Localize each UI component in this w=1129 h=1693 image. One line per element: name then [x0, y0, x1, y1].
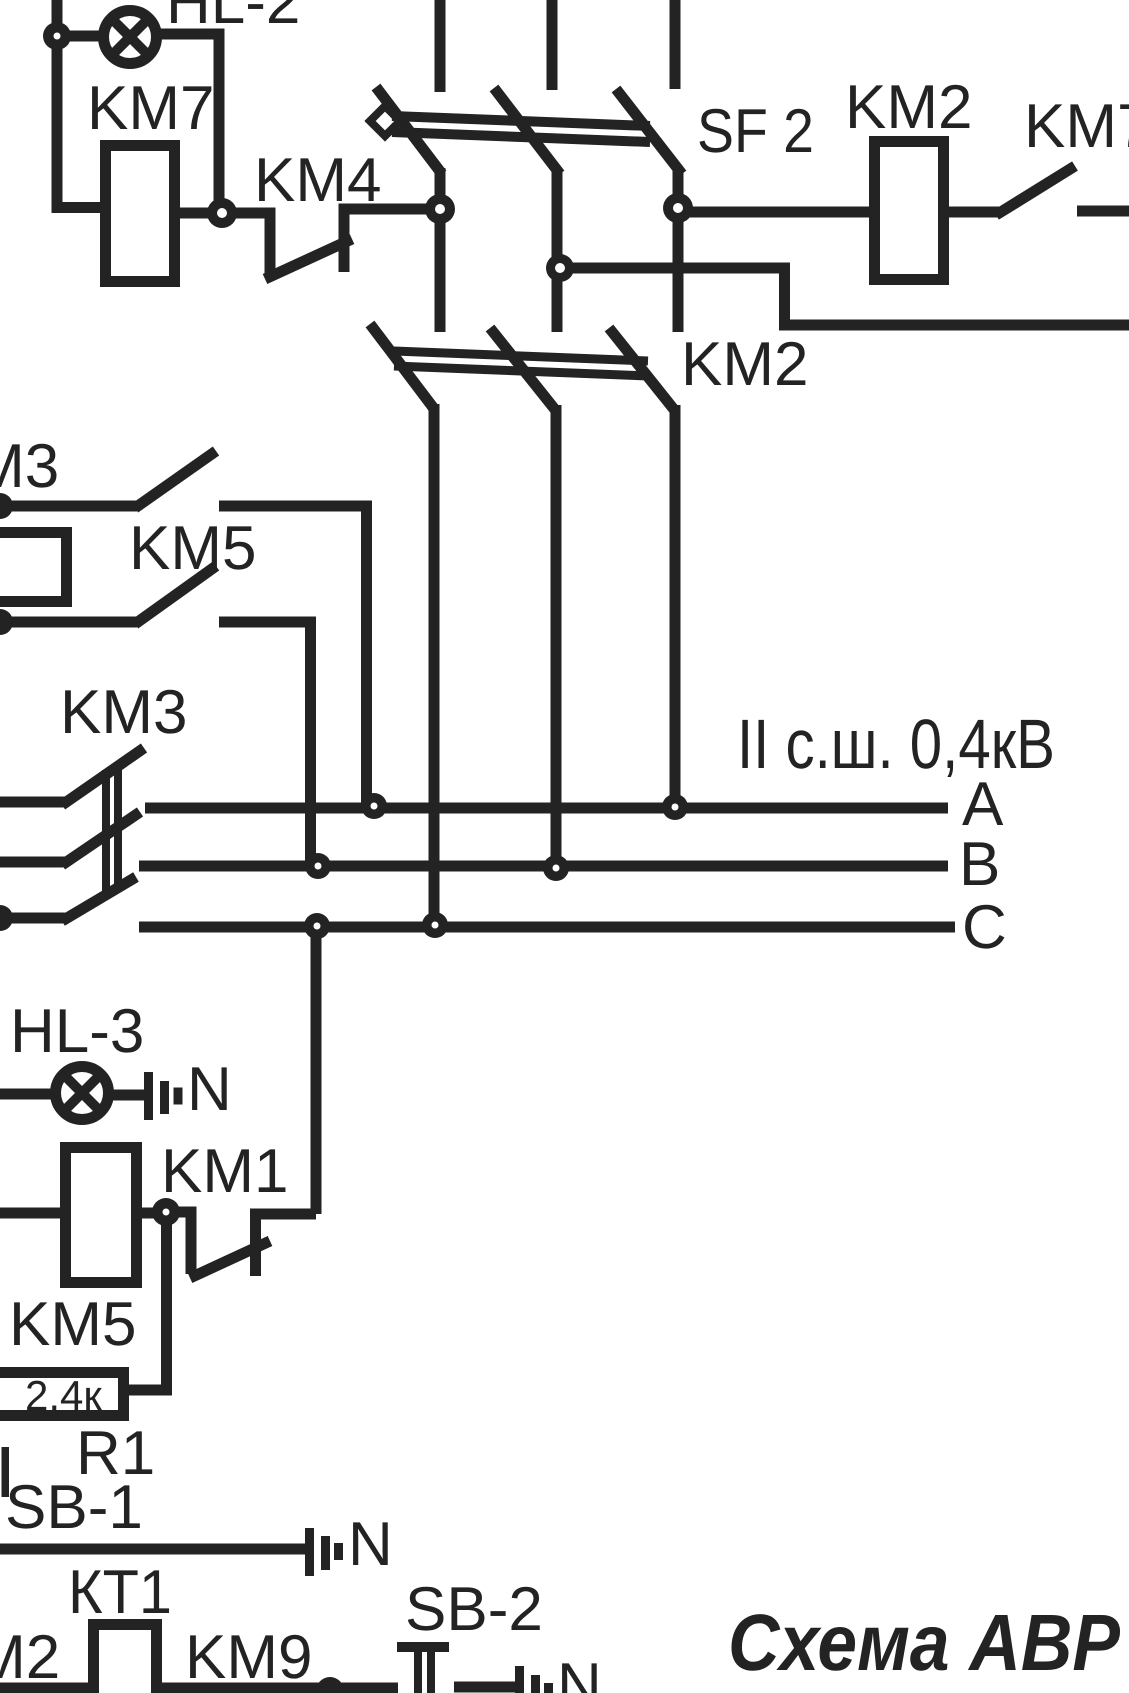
wire SB-1 to terminal N — [0, 1544, 305, 1555]
terminal N (after HL-3) — [144, 1072, 183, 1120]
svg-text:N: N — [557, 1651, 602, 1693]
svg-text:N: N — [348, 1510, 393, 1579]
coil KM5 — [66, 1148, 137, 1283]
svg-text:KM2: KM2 — [681, 330, 808, 399]
svg-text:C: C — [962, 893, 1007, 962]
svg-text:II с.ш. 0,4кВ: II с.ш. 0,4кВ — [737, 705, 1055, 783]
svg-text:A: A — [962, 770, 1004, 839]
svg-text:КМ2: КМ2 — [0, 1623, 60, 1692]
breaker SF2 linkage bar — [392, 116, 650, 142]
svg-text:2,4к: 2,4к — [25, 1372, 102, 1419]
contactor KM2 linkage bar — [394, 351, 648, 376]
contactor KM3 pole 1 — [0, 748, 144, 805]
busbar A — [145, 803, 948, 814]
contactor KM2 pole 3 — [609, 328, 676, 808]
wire node down to resistor R1 — [129, 1212, 167, 1390]
wire KT1 to SB-2 — [151, 1683, 398, 1693]
terminal N (bottom right) — [515, 1666, 553, 1693]
contactor KM2 pole 1 — [370, 324, 435, 926]
coil KM2 — [875, 142, 944, 280]
contactor KM2 pole 2 — [490, 328, 557, 869]
svg-text:KM9: KM9 — [185, 1623, 312, 1692]
contactor KM3 linkage bar — [106, 768, 118, 893]
contact KM1 (NC) — [166, 1212, 316, 1278]
svg-text:KM2: KM2 — [845, 73, 972, 142]
contact KM5 upper (NO) with wires — [0, 451, 367, 806]
svg-text:KM5: KM5 — [129, 514, 256, 583]
busbar C — [139, 922, 955, 933]
svg-text:SB-1: SB-1 — [5, 1473, 143, 1542]
svg-text:HL-3: HL-3 — [10, 997, 144, 1066]
wire dot to lamp HL-2 — [57, 31, 101, 42]
wire SF2 pole2 node to right edge — [560, 268, 1129, 325]
wire coil KM7 to node — [180, 208, 226, 219]
contact KM5 lower (NO) with wires — [0, 566, 311, 867]
contactor KM3 pole 3 — [0, 877, 136, 921]
wire coil KM5 to node — [142, 1208, 170, 1219]
node dot — [0, 22, 693, 1693]
svg-text:SB-2: SB-2 — [405, 1575, 543, 1644]
svg-text:KM7: KM7 — [87, 74, 214, 143]
terminal N (after SB-1) — [305, 1528, 343, 1576]
wire left to lamp HL-3 — [0, 1089, 53, 1100]
svg-text:KM4: KM4 — [254, 146, 381, 215]
wire SF2 pole3 node to coil KM2 — [678, 207, 869, 218]
svg-text:N: N — [187, 1055, 232, 1124]
wire lamp HL-3 to terminal N — [111, 1090, 146, 1101]
contact KM4 (NC) — [222, 204, 441, 279]
breaker SF2 actuator diamond — [370, 106, 400, 136]
lamp HL-2 — [104, 11, 157, 64]
svg-text:SF 2: SF 2 — [697, 97, 814, 166]
wire bottom left — [0, 1683, 98, 1693]
node dot white centers — [54, 33, 684, 1216]
svg-text:KM3: KM3 — [60, 678, 187, 747]
contact KM7 (NO, top right) — [996, 166, 1129, 215]
breaker SF2 pole 1 — [376, 0, 442, 332]
contact KT1 (time relay) — [94, 1625, 157, 1693]
button SB-2 — [397, 1642, 449, 1693]
wire left to coil KM5 — [0, 1208, 62, 1219]
svg-text:KM5: KM5 — [9, 1290, 136, 1359]
svg-text:B: B — [959, 830, 1000, 899]
button SB-1 (partial at left edge) — [2, 1447, 10, 1497]
svg-text:HL-2: HL-2 — [166, 0, 300, 37]
wire coil KM2 right — [949, 207, 999, 218]
lamp HL-3 — [56, 1067, 109, 1120]
contactor KM3 pole 2 — [0, 812, 140, 865]
coil (partial at left edge) — [0, 533, 67, 602]
svg-text:КТ1: КТ1 — [68, 1558, 172, 1627]
breaker SF2 pole 2 — [494, 0, 560, 332]
svg-text:Схема АВР: Схема АВР — [728, 1598, 1121, 1687]
wire left vertical to KM7 coil — [57, 0, 100, 208]
coil KM7 — [106, 146, 175, 282]
wire SB-2 to terminal N — [454, 1682, 519, 1693]
svg-text:KM7: KM7 — [1024, 92, 1129, 161]
wire lamp HL-2 to KM4 node — [159, 34, 219, 213]
wire bus C down to KM1 — [311, 927, 322, 1214]
busbar B — [139, 861, 948, 872]
resistor R1 body — [0, 1373, 124, 1416]
svg-text:КМ3: КМ3 — [0, 432, 59, 501]
svg-text:KM1: KM1 — [161, 1137, 288, 1206]
breaker SF2 pole 3 — [616, 0, 682, 332]
